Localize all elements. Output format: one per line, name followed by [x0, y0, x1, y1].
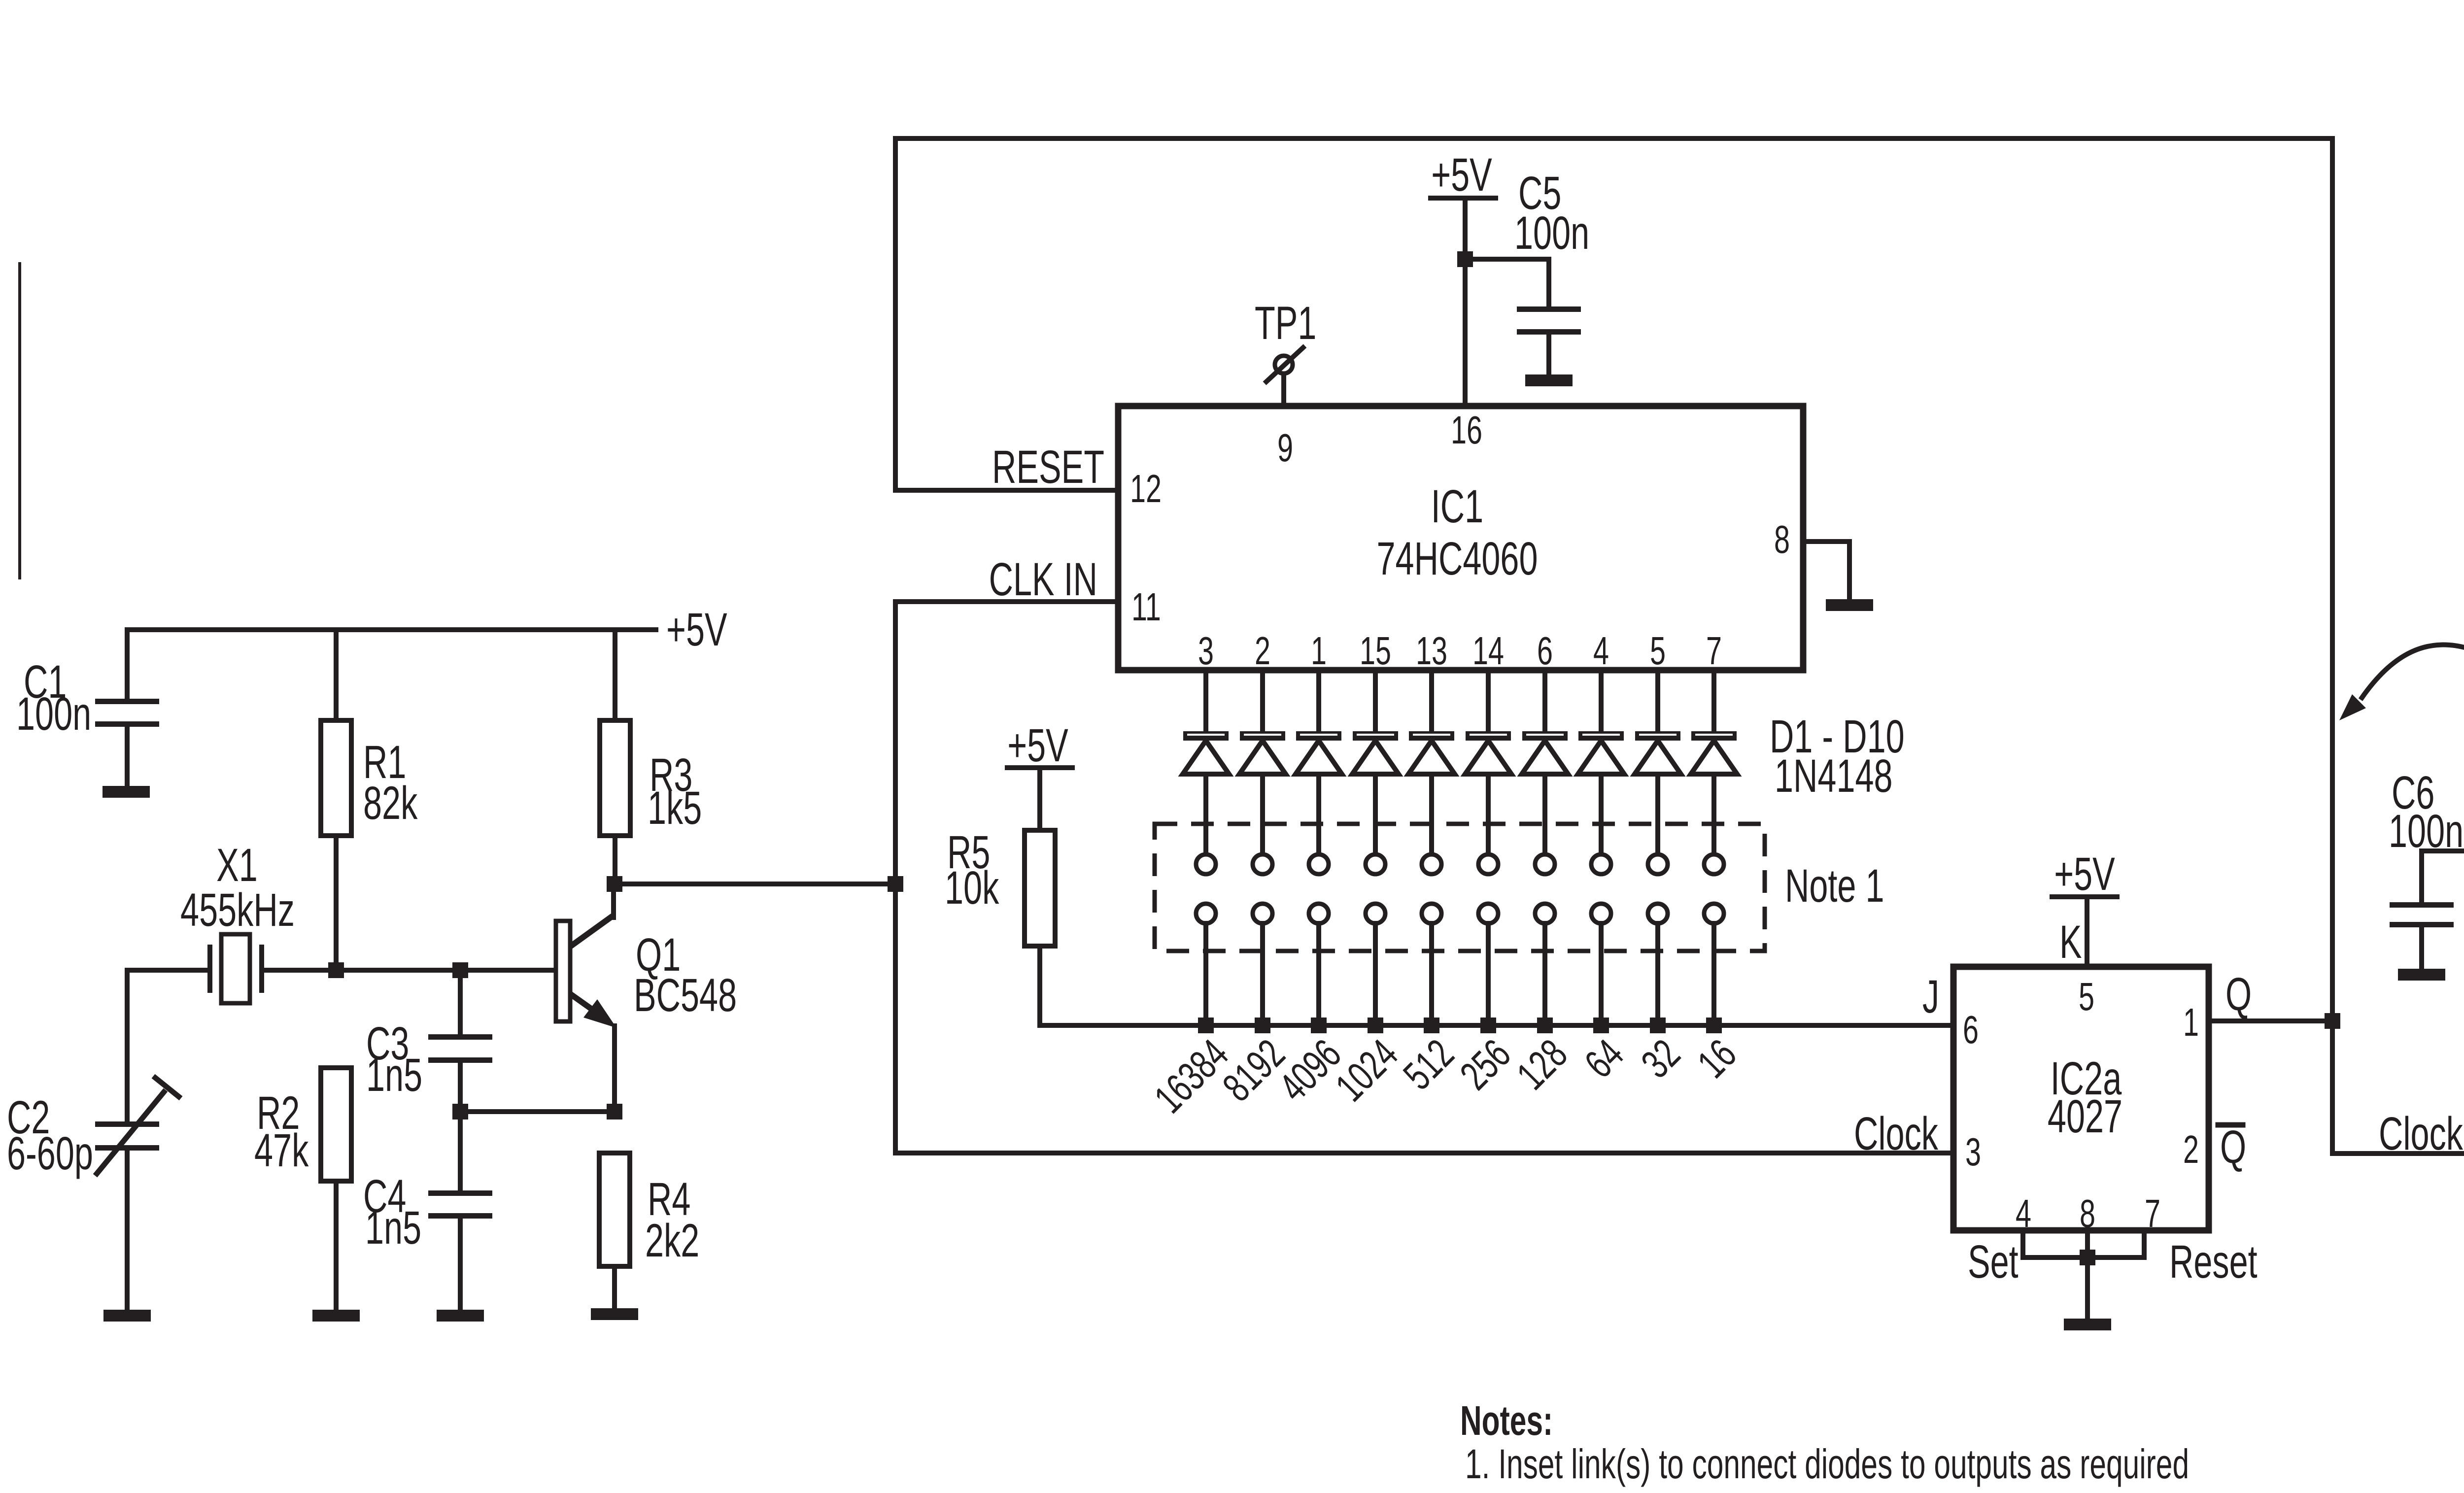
pin 8 label	[1774, 517, 1790, 562]
node +5V (rail label)	[666, 603, 727, 656]
svg-text:14: 14	[1472, 629, 1504, 673]
svg-text:2k2: 2k2	[645, 1214, 699, 1267]
node C3 tap junction	[452, 962, 468, 978]
link terminal top (col 256)	[1478, 854, 1498, 874]
link terminal top (col 512)	[1422, 854, 1441, 874]
wire RESET loop (top rail)	[895, 138, 2332, 1021]
capacitor C4	[363, 1112, 492, 1310]
link terminal bottom (col 16)	[1704, 904, 1724, 1025]
node bus junction 512	[1424, 1018, 1439, 1033]
pin 13 label (IC1 output)	[1416, 629, 1447, 673]
node C5 tap junction	[1457, 251, 1473, 267]
svg-text:7: 7	[1706, 629, 1722, 673]
svg-text:Reset: Reset	[2169, 1235, 2258, 1288]
node value label 256	[1451, 1030, 1519, 1098]
svg-text:+5V: +5V	[1431, 148, 1492, 201]
link terminal bottom (col 256)	[1478, 904, 1498, 1025]
ground (C2)	[103, 1310, 151, 1322]
diode D5 1N4148	[1408, 731, 1455, 854]
diode D3 1N4148	[1296, 731, 1342, 854]
svg-text:BC548: BC548	[634, 969, 737, 1021]
node K label (IC2a)	[2059, 916, 2082, 968]
link terminal top (col 4096)	[1309, 854, 1329, 874]
IC IC2a 4027	[1953, 967, 2209, 1230]
pin 11 label	[1131, 585, 1161, 629]
wire pin 3 stub	[1203, 670, 1208, 731]
svg-text:1: 1	[2183, 1000, 2199, 1045]
svg-text:16: 16	[1451, 408, 1482, 452]
wire CLK IN riser	[895, 602, 1118, 884]
link terminal top (col 8192)	[1253, 854, 1272, 874]
wire pin 1 stub	[1316, 670, 1321, 731]
svg-text:+5V: +5V	[1007, 719, 1068, 772]
link terminal top (col 32)	[1648, 854, 1668, 874]
wire pin 4 stub	[1599, 670, 1604, 731]
ground (C4)	[437, 1310, 484, 1322]
IC IC1 74HC4060	[1118, 406, 1803, 670]
ground (IC1 pin 8)	[1826, 599, 1873, 611]
svg-text:1n5: 1n5	[366, 1049, 422, 1101]
svg-text:12: 12	[1130, 467, 1162, 511]
node Set/Reset junction (IC2a)	[2080, 1250, 2095, 1265]
node CLK junction	[888, 876, 903, 892]
resistor R2	[254, 1068, 351, 1310]
node bus junction 32	[1650, 1018, 1666, 1033]
node Set label (IC2a)	[1968, 1235, 2019, 1288]
link terminal top (col 16)	[1704, 854, 1724, 874]
svg-text:100n: 100n	[1514, 206, 1589, 259]
svg-text:Q: Q	[2225, 968, 2252, 1020]
node RESET label	[992, 441, 1104, 493]
svg-text:8: 8	[1774, 517, 1790, 562]
svg-text:6-60p: 6-60p	[7, 1127, 93, 1180]
node C3/C4 junction	[452, 1104, 468, 1120]
svg-text:Notes:: Notes:	[1460, 1397, 1553, 1444]
diode D2 1N4148	[1239, 731, 1286, 854]
pin 16 label	[1451, 408, 1482, 452]
node Notes heading	[1460, 1397, 1553, 1444]
svg-text:15: 15	[1360, 629, 1391, 673]
node value label 512	[1395, 1030, 1463, 1098]
svg-text:3: 3	[1198, 629, 1214, 673]
svg-text:10k: 10k	[945, 861, 999, 914]
svg-text:5: 5	[1650, 629, 1666, 673]
svg-text:1n5: 1n5	[365, 1201, 421, 1254]
pin 3 label (IC1 output)	[1198, 629, 1214, 673]
capacitor C6	[2389, 766, 2464, 969]
svg-text:K: K	[2059, 916, 2082, 968]
svg-text:6: 6	[1537, 629, 1553, 673]
resistor R5	[945, 768, 1055, 1025]
svg-text:13: 13	[1416, 629, 1447, 673]
svg-text:Set: Set	[1968, 1235, 2019, 1288]
node D1 - D10 label	[1770, 710, 1905, 802]
crystal X1 455kHz	[127, 839, 336, 1003]
pin 6 label (IC1 output)	[1537, 629, 1553, 673]
svg-text:74HC4060: 74HC4060	[1376, 532, 1538, 585]
svg-text:RESET: RESET	[992, 441, 1104, 493]
svg-text:Q: Q	[2220, 1120, 2246, 1173]
node value label 16384	[1146, 1030, 1237, 1121]
pin 4 label (IC1 output)	[1593, 629, 1609, 673]
node value label 64	[1576, 1030, 1632, 1086]
svg-text:6: 6	[1963, 1008, 1979, 1052]
node value label 32	[1633, 1030, 1689, 1086]
svg-text:1. Inset link(s) to connect di: 1. Inset link(s) to connect diodes to ou…	[1465, 1441, 2189, 1487]
svg-text:TP1: TP1	[1255, 297, 1316, 349]
wire +5V rail	[127, 627, 656, 632]
capacitor C2 (trimmer)	[7, 970, 181, 1310]
wire K supply	[2085, 897, 2089, 967]
svg-text:+5V: +5V	[2054, 848, 2115, 900]
wire emitter to C3/C4 node	[460, 1109, 615, 1114]
pin 5 label	[2079, 975, 2094, 1019]
wire link bus to J	[1040, 1023, 1953, 1028]
pin 5 label (IC1 output)	[1650, 629, 1666, 673]
pin 15 label (IC1 output)	[1360, 629, 1391, 673]
svg-text:2: 2	[2183, 1127, 2199, 1172]
resistor R3	[600, 630, 702, 884]
pin 1 label	[2183, 1000, 2199, 1045]
pin 7 label (IC1 output)	[1706, 629, 1722, 673]
pin 7 label	[2145, 1191, 2160, 1236]
svg-text:5: 5	[2079, 975, 2094, 1019]
svg-text:1k5: 1k5	[648, 781, 702, 834]
link terminal top (col 128)	[1535, 854, 1555, 874]
node +5V (R5)	[1005, 719, 1075, 772]
node +5V (IC2a K)	[2050, 848, 2120, 900]
page edge mark	[18, 262, 21, 579]
pin 3 label	[1965, 1130, 1981, 1174]
node emitter junction	[607, 1104, 622, 1120]
link terminal top (col 64)	[1591, 854, 1611, 874]
link terminal bottom (col 32)	[1648, 904, 1668, 1025]
link terminal bottom (col 512)	[1422, 904, 1441, 1025]
node value label 1024	[1327, 1030, 1406, 1110]
link terminal bottom (col 128)	[1535, 904, 1555, 1025]
link terminal top (col 1024)	[1366, 854, 1385, 874]
node CLK IN label	[989, 553, 1097, 606]
pin 1 label (IC1 output)	[1311, 629, 1327, 673]
wire Set/Reset bracket (IC2a)	[2023, 1230, 2144, 1319]
node bus junction 1024	[1368, 1018, 1383, 1033]
node X1/R1/R2 junction	[328, 962, 344, 978]
svg-text:11: 11	[1131, 585, 1161, 629]
wire pin 6 stub	[1542, 670, 1547, 731]
node bus junction 4096	[1311, 1018, 1327, 1033]
diode D9 1N4148	[1635, 731, 1681, 854]
wire pin 13 stub	[1429, 670, 1434, 731]
node Clock label (IC2a)	[1854, 1107, 1939, 1160]
svg-text:1: 1	[1311, 629, 1327, 673]
svg-text:100n: 100n	[2389, 805, 2464, 857]
diode D8 1N4148	[1578, 731, 1624, 854]
node Qbar label (IC2a)	[2218, 1120, 2246, 1173]
wire pin 2 stub	[1260, 670, 1265, 731]
node +5V (IC1 pin16)	[1428, 148, 1498, 201]
resistor R1	[321, 630, 418, 970]
node Reset label (IC2a)	[2169, 1235, 2258, 1288]
ground (C5)	[1525, 374, 1573, 386]
svg-text:2: 2	[1255, 629, 1270, 673]
node value label 4096	[1270, 1030, 1350, 1110]
transistor Q1 BC548	[556, 884, 737, 1112]
svg-text:J: J	[1922, 970, 1939, 1023]
svg-text:455kHz: 455kHz	[180, 883, 295, 936]
link terminal bottom (col 8192)	[1253, 904, 1272, 1025]
node bus junction 16	[1706, 1018, 1722, 1033]
capacitor C5	[1465, 167, 1589, 374]
svg-text:47k: 47k	[254, 1124, 309, 1177]
ground (C6)	[2398, 969, 2445, 981]
pin 9 label	[1277, 426, 1293, 470]
svg-text:7: 7	[2145, 1191, 2160, 1236]
node Clock label (IC2b)	[2379, 1107, 2464, 1160]
diode D4 1N4148	[1352, 731, 1399, 854]
svg-text:Note 1: Note 1	[1785, 859, 1884, 912]
link terminal bottom (col 16384)	[1196, 904, 1216, 1025]
wire pin 14 stub	[1486, 670, 1491, 731]
svg-text:4: 4	[1593, 629, 1609, 673]
link terminal top (col 16384)	[1196, 854, 1216, 874]
link terminal bottom (col 4096)	[1309, 904, 1329, 1025]
wire base node	[336, 968, 558, 973]
svg-text:82k: 82k	[363, 777, 418, 829]
node bus junction 64	[1593, 1018, 1609, 1033]
pin 8 label (IC2a)	[2080, 1191, 2095, 1236]
link terminal bottom (col 64)	[1591, 904, 1611, 1025]
node bus junction 128	[1537, 1018, 1553, 1033]
node Q/clock junction	[2325, 1013, 2340, 1029]
pin 2 label	[2183, 1127, 2199, 1172]
svg-text:Clock: Clock	[1854, 1107, 1939, 1160]
test point TP1	[1255, 297, 1316, 406]
svg-text:100n: 100n	[16, 687, 91, 740]
diode D7 1N4148	[1522, 731, 1568, 854]
wire pin 5 stub	[1655, 670, 1660, 731]
diode D6 1N4148	[1465, 731, 1511, 854]
link terminal bottom (col 1024)	[1366, 904, 1385, 1025]
node value label 8192	[1214, 1030, 1294, 1110]
capacitor C1	[16, 630, 159, 786]
node J label (IC2a)	[1922, 970, 1939, 1023]
node value label 128	[1508, 1030, 1576, 1098]
wire pin 8 to ground	[1803, 542, 1849, 599]
pin 12 label	[1130, 467, 1162, 511]
svg-text:4027: 4027	[2048, 1090, 2122, 1143]
wire pin 7 stub	[1711, 670, 1716, 731]
capacitor C3	[366, 970, 492, 1112]
ground (IC2a)	[2064, 1319, 2111, 1330]
svg-text:9: 9	[1277, 426, 1293, 470]
node note 1 text	[1465, 1441, 2189, 1487]
svg-text:IC1: IC1	[1431, 480, 1483, 533]
node bus junction 256	[1480, 1018, 1496, 1033]
node Q label (IC2a)	[2225, 968, 2252, 1020]
diode D10 1N4148	[1691, 731, 1737, 854]
resistor R4	[599, 1153, 699, 1308]
wire collector to CLK node	[615, 882, 895, 886]
pin 4 label	[2016, 1191, 2031, 1236]
node bus junction 8192	[1255, 1018, 1270, 1033]
diode D1 1N4148	[1183, 731, 1229, 854]
link box (Note 1 dashed)	[1155, 824, 1765, 951]
ground (C1)	[103, 786, 150, 798]
node bus junction 16384	[1198, 1018, 1214, 1033]
ground (R4)	[591, 1308, 638, 1320]
pin 6 label	[1963, 1008, 1979, 1052]
node Note 1 label	[1785, 859, 1884, 912]
node collector junction	[607, 876, 622, 892]
svg-text:CLK IN: CLK IN	[989, 553, 1097, 606]
wire clock line to IC2a	[895, 884, 1953, 1153]
ground (R2)	[312, 1310, 360, 1322]
wire pin16 supply	[1463, 198, 1468, 406]
svg-text:1N4148: 1N4148	[1775, 749, 1893, 802]
svg-text:+5V: +5V	[666, 603, 727, 656]
pin 2 label (IC1 output)	[1255, 629, 1270, 673]
arrow callout to clock node	[2339, 645, 2464, 720]
wire pin 15 stub	[1373, 670, 1378, 731]
svg-text:3: 3	[1965, 1130, 1981, 1174]
node value label 16	[1689, 1030, 1745, 1086]
wire clock to IC2b	[2332, 1021, 2464, 1154]
wire Q output (IC2a)	[2209, 1018, 2332, 1023]
pin 14 label (IC1 output)	[1472, 629, 1504, 673]
